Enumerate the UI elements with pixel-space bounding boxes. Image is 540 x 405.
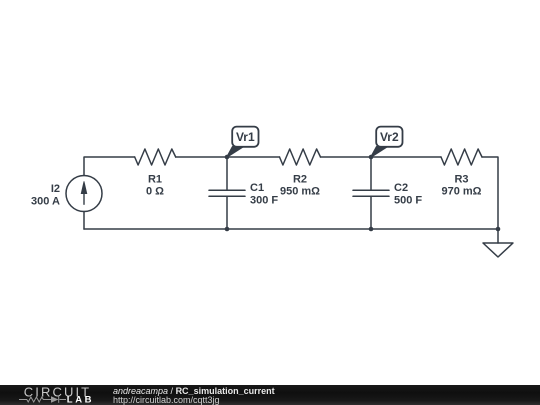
- footer bar: [0, 385, 540, 405]
- wire node Vr1 to R2: [227, 156, 280, 158]
- svg-text:R2: R2: [293, 174, 307, 186]
- wire top-left from R1 to current source top: [84, 157, 135, 176]
- svg-text:R3: R3: [454, 174, 468, 186]
- svg-text:300 A: 300 A: [31, 196, 60, 208]
- CircuitLab logo: [0, 385, 110, 405]
- resistor R2: [280, 149, 321, 165]
- svg-text:LAB: LAB: [67, 395, 94, 405]
- svg-text:Vr2: Vr2: [380, 130, 399, 144]
- wire ground stub: [497, 229, 499, 243]
- junction node dot at Vr2: [369, 155, 374, 160]
- resistor R1: [135, 149, 176, 165]
- flag Vr2: [371, 127, 403, 157]
- wire from current source bottom to bottom rail: [83, 212, 85, 230]
- svg-text:300 F: 300 F: [250, 195, 278, 207]
- junction node dot bottom right: [496, 227, 501, 232]
- svg-text:0 Ω: 0 Ω: [146, 186, 164, 198]
- svg-text:970 mΩ: 970 mΩ: [441, 186, 481, 198]
- junction node dot C1 bottom: [225, 227, 230, 232]
- junction node dot at Vr1: [225, 155, 230, 160]
- capacitor C2: [353, 157, 389, 229]
- wire R3 to right corner and down: [482, 157, 498, 229]
- wire R2 to node Vr2: [321, 156, 372, 158]
- wire R1 right lead to node Vr1: [176, 156, 227, 158]
- ground: [483, 243, 513, 257]
- svg-text:C1: C1: [250, 182, 264, 194]
- capacitor C1: [209, 157, 245, 229]
- wire bottom rail: [84, 228, 498, 230]
- svg-text:Vr1: Vr1: [236, 130, 255, 144]
- current source I2 circle: [66, 176, 102, 212]
- resistor R3: [441, 149, 482, 165]
- svg-text:I2: I2: [51, 183, 60, 195]
- wire node Vr2 to R3: [371, 156, 441, 158]
- flag Vr1: [227, 127, 259, 157]
- svg-text:C2: C2: [394, 182, 408, 194]
- footer text: [113, 386, 275, 396]
- svg-text:950 mΩ: 950 mΩ: [280, 186, 320, 198]
- current source I2 arrow: [81, 181, 87, 205]
- svg-text:R1: R1: [148, 174, 162, 186]
- svg-text:500 F: 500 F: [394, 195, 422, 207]
- junction node dot C2 bottom: [369, 227, 374, 232]
